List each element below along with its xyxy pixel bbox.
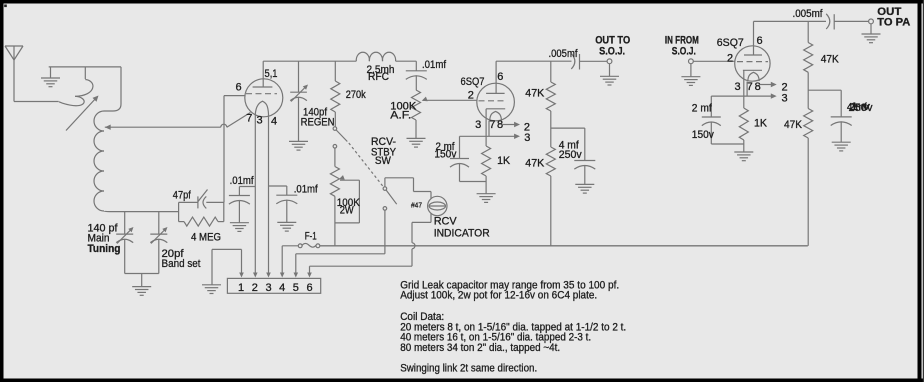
V3 heater dome xyxy=(748,72,759,81)
label 7 pin v3 xyxy=(747,81,753,93)
capacitor C12 4mf filter xyxy=(808,90,852,142)
label S.O.J. in xyxy=(672,45,696,57)
svg-text:3: 3 xyxy=(782,93,788,105)
svg-text:6: 6 xyxy=(757,35,763,47)
ground G12 v3 cathode xyxy=(734,152,753,161)
label 2 mf v3 xyxy=(692,103,713,115)
label STBY xyxy=(371,147,397,159)
svg-text:5,1: 5,1 xyxy=(265,68,278,80)
svg-text:F-1: F-1 xyxy=(305,231,317,243)
label RCV xyxy=(434,216,458,228)
lamp DS1 #47 xyxy=(428,196,447,215)
resistor R6 47K plate load xyxy=(546,61,555,147)
notes text block xyxy=(400,279,626,374)
svg-text:INDICATOR: INDICATOR xyxy=(434,228,490,240)
label TO PA xyxy=(877,17,910,29)
svg-text:6SQ7: 6SQ7 xyxy=(717,37,744,49)
svg-text:3: 3 xyxy=(265,282,271,294)
label 3 arrow v2 xyxy=(524,132,530,144)
variable capacitor C1 140pf Main Tuning xyxy=(116,212,133,274)
label .01mf right xyxy=(294,184,319,196)
ground G2 tuning caps xyxy=(132,274,151,296)
V2 grid dashes xyxy=(479,100,507,102)
svg-text:Adjust 100k, 2w pot for 12-16v: Adjust 100k, 2w pot for 12-16v on 6C4 pl… xyxy=(400,290,597,302)
label 8 pin v2 xyxy=(497,119,503,131)
V3 plate xyxy=(744,21,762,55)
svg-text:A.F.: A.F. xyxy=(390,110,411,122)
svg-text:S.O.J.: S.O.J. xyxy=(672,45,696,57)
capacitor C3 47pf grid leak xyxy=(179,190,224,209)
switch S1b contact bottom xyxy=(383,207,387,211)
label 3 pin V1 xyxy=(257,115,263,127)
wire S1b top to lamp xyxy=(385,178,431,199)
label 3 pin v2b xyxy=(475,119,481,131)
svg-text:RCV: RCV xyxy=(434,216,458,228)
resistor R5 1K xyxy=(482,146,491,182)
wire V1 plate bus xyxy=(263,60,356,62)
svg-text:7: 7 xyxy=(246,113,252,125)
svg-text:.01mf: .01mf xyxy=(230,175,255,187)
wire filament pin3 to terminal 2 xyxy=(253,114,258,278)
svg-text:1K: 1K xyxy=(497,155,511,167)
svg-text:3: 3 xyxy=(735,81,741,93)
label 150v overlap b xyxy=(849,102,873,114)
pentode V2 6SQ7 envelope xyxy=(477,83,515,121)
label RFC xyxy=(368,71,389,83)
wire RFC to coupling cap xyxy=(396,61,417,71)
svg-text:.005mf: .005mf xyxy=(549,48,579,60)
node IN FROM S.O.J. terminal xyxy=(689,59,694,64)
svg-text:1: 1 xyxy=(238,282,244,294)
label 4mf overlap a xyxy=(847,102,868,114)
label 6SQ7 v2 xyxy=(461,76,485,88)
V2 diode arrow to 3 xyxy=(460,121,521,139)
ground G6 af pot xyxy=(407,138,426,147)
ground G13 xyxy=(832,142,851,151)
V3 cathode bar xyxy=(743,70,762,108)
wire terminal 4 to fuse xyxy=(280,246,298,278)
wire coil top entry xyxy=(104,67,121,111)
label terminal 6 xyxy=(306,282,312,294)
fuse F-1 xyxy=(298,243,319,247)
svg-text:8: 8 xyxy=(755,81,761,93)
B+ rail wire xyxy=(320,245,808,247)
V3 diode arrow to 3 xyxy=(711,82,776,99)
label 150v v2 xyxy=(434,149,456,161)
terminal strip box xyxy=(227,278,320,293)
svg-text:Band set: Band set xyxy=(162,258,201,270)
svg-text:150v: 150v xyxy=(434,149,456,161)
resistor R1 4 MEG xyxy=(179,202,224,226)
label 7 pin v2 xyxy=(489,119,495,131)
switch S1a lever xyxy=(336,130,347,142)
svg-text:1K: 1K xyxy=(754,118,768,130)
V3 diode arrow to 2 xyxy=(759,82,777,87)
label 100K 2W a xyxy=(337,197,361,209)
svg-text:2: 2 xyxy=(252,282,258,294)
V3 grid dashes xyxy=(737,61,768,63)
svg-text:Tuning: Tuning xyxy=(88,243,121,255)
wire V2 plate bus xyxy=(496,60,571,62)
svg-text:.01mf: .01mf xyxy=(422,59,447,71)
svg-text:2W: 2W xyxy=(340,205,355,217)
V1 plate xyxy=(253,61,273,87)
label .01mf coupling xyxy=(422,59,447,71)
capacitor C10 .005mf xyxy=(571,54,607,70)
svg-text:3: 3 xyxy=(257,115,263,127)
resistor R2 270k xyxy=(331,61,340,127)
capacitor C9 4mf 250v xyxy=(551,128,596,184)
label 140pf xyxy=(303,107,328,119)
svg-text:150v: 150v xyxy=(692,129,714,141)
coil tap wire to cathode xyxy=(105,113,251,130)
R4 wiper arrow xyxy=(339,175,360,180)
svg-text:6SQ7: 6SQ7 xyxy=(461,76,485,88)
V2 heater dome xyxy=(490,111,502,120)
ground G1 at link top xyxy=(41,67,60,87)
svg-text:.005mf: .005mf xyxy=(793,8,824,20)
switch S1b lever xyxy=(386,190,397,204)
svg-text:Swinging link 2t same directio: Swinging link 2t same direction. xyxy=(400,363,537,375)
capacitor C5 .01mf xyxy=(269,186,298,222)
svg-text:2: 2 xyxy=(727,53,733,65)
svg-text:3: 3 xyxy=(524,132,530,144)
svg-text:RFC: RFC xyxy=(368,71,389,83)
wire ground bus to coil top xyxy=(49,66,121,68)
potentiometer R4 100K 2W xyxy=(330,167,339,197)
label 6SQ7 v3 xyxy=(717,37,744,49)
node OUT TO PA terminal xyxy=(869,19,874,24)
svg-text:6: 6 xyxy=(236,82,242,94)
label 100K af xyxy=(390,101,417,113)
label 2 arrow v3 xyxy=(782,82,788,94)
wire V3 plate bus xyxy=(754,20,827,22)
variable capacitor C2 20pf Band set xyxy=(150,212,167,274)
label 20pf xyxy=(162,248,185,260)
label 1K v3 xyxy=(754,118,768,130)
V1 grid dashes xyxy=(246,93,277,95)
V1 cathode heater xyxy=(255,101,268,114)
label .01mf left xyxy=(230,175,255,187)
label 250v xyxy=(559,149,582,161)
label 4 mf xyxy=(559,140,580,152)
svg-text:2: 2 xyxy=(468,90,474,102)
label A.F. xyxy=(390,110,411,122)
label 6 pin v3 xyxy=(757,35,763,47)
label terminal 4 xyxy=(279,282,285,294)
label 7 pin V1 xyxy=(246,113,252,125)
ground G3 xyxy=(230,223,249,232)
label 4 pin V1 xyxy=(271,116,277,128)
V2 diode arrow to 2 xyxy=(502,122,520,127)
label 8 pin v3 xyxy=(755,81,761,93)
resistor R9 47K plate load xyxy=(804,21,813,108)
label SW xyxy=(375,155,392,167)
label 47K r7 xyxy=(525,158,545,170)
resistor R7 47K dropping xyxy=(546,147,555,246)
label 2 mf v2 xyxy=(436,141,456,153)
label 3 pin v3b xyxy=(735,81,741,93)
label INDICATOR xyxy=(434,228,490,240)
label F-1 xyxy=(305,231,317,243)
svg-text:4 MEG: 4 MEG xyxy=(191,232,221,244)
svg-text:S.O.J.: S.O.J. xyxy=(599,45,625,57)
wire filament pin4 to terminal 3 xyxy=(266,114,271,278)
pentode V3 6SQ7 envelope xyxy=(735,46,770,81)
svg-text:250v: 250v xyxy=(559,149,582,161)
svg-text:#47: #47 xyxy=(411,201,422,210)
V2 cathode bar xyxy=(486,109,505,146)
wire soj to V3 grid xyxy=(693,60,734,62)
label 47K r9 xyxy=(821,54,840,66)
label 47K r10 xyxy=(784,119,803,131)
label 140 pf xyxy=(88,223,119,235)
label 2 pin v3 xyxy=(727,53,733,65)
wire terminal 5 to switch xyxy=(294,254,385,278)
wire antenna to link bottom xyxy=(14,101,59,103)
wire terminal 1 to ground xyxy=(212,249,244,284)
label #47 xyxy=(411,201,422,210)
ground G11 soj in xyxy=(681,64,700,86)
label 6 pin V1 xyxy=(236,82,242,94)
potentiometer R3 100K A.F. xyxy=(412,90,421,138)
switch S1a contact bottom xyxy=(333,145,337,149)
main tuning coil L1 xyxy=(94,111,104,211)
swinging link L2 xyxy=(59,67,93,106)
capacitor C4 .01mf xyxy=(229,187,255,223)
label 150v overlap c xyxy=(850,101,871,113)
ground G9 4mf xyxy=(575,184,594,193)
wire terminal 6 to lamp xyxy=(307,266,412,277)
capacitor C11 2mf 150v xyxy=(702,96,744,144)
label 1K v2 xyxy=(497,155,511,167)
svg-text:SW: SW xyxy=(375,155,392,167)
capacitor C13 .005mf xyxy=(826,14,868,30)
label 150v v3 xyxy=(692,129,714,141)
svg-text:6: 6 xyxy=(306,282,312,294)
svg-text:2 mf: 2 mf xyxy=(692,103,713,115)
label 2 pin v2 xyxy=(468,90,474,102)
switch S1a contact top xyxy=(333,127,337,131)
ground G4 xyxy=(277,222,296,231)
switch linkage dashed xyxy=(349,143,383,187)
svg-text:47K: 47K xyxy=(525,158,545,170)
wire grid to tube V1 xyxy=(224,96,245,203)
label 4 MEG xyxy=(191,232,221,244)
ground G7 terminal 1 xyxy=(202,285,221,294)
label 3 arrow v3 xyxy=(782,93,788,105)
svg-text:47K: 47K xyxy=(821,54,840,66)
label 6 pin v2 xyxy=(497,71,503,83)
wire lamp to terminal 6 xyxy=(412,214,431,267)
variable capacitor C6 140pf REGEN xyxy=(290,61,308,141)
svg-text:4: 4 xyxy=(271,116,277,128)
link coupling arrow xyxy=(66,96,99,131)
svg-text:47K: 47K xyxy=(784,119,803,131)
label 270k xyxy=(346,89,366,101)
triode V1 envelope xyxy=(245,79,283,117)
label OUT TO xyxy=(595,35,630,47)
svg-text:47K: 47K xyxy=(525,88,545,100)
capacitor C8 2mf 150v xyxy=(450,136,486,181)
label Band set xyxy=(162,258,201,270)
svg-text:1 v: 1 v xyxy=(850,101,871,113)
ground G5 regen xyxy=(289,141,308,150)
ground G14 pa out xyxy=(862,24,881,43)
ground G8 v2 cathode xyxy=(477,182,496,203)
switch S1b contact top xyxy=(383,187,387,191)
wire tuning caps bottom xyxy=(125,273,159,275)
label terminal 3 xyxy=(265,282,271,294)
label 5,1 pin xyxy=(265,68,278,80)
label RCV- xyxy=(371,136,396,148)
label 47pf xyxy=(173,190,192,202)
label .005mf s1 xyxy=(549,48,579,60)
wire coil bottom to grid leak xyxy=(104,210,179,213)
wire switch to pot xyxy=(334,148,336,166)
label Tuning xyxy=(88,243,121,255)
label S.O.J. out xyxy=(599,45,625,57)
svg-text:.01mf: .01mf xyxy=(294,184,319,196)
V2 plate xyxy=(486,61,505,93)
svg-text:7: 7 xyxy=(489,119,495,131)
resistor R10 47K dropping xyxy=(804,109,813,246)
ground G10 soj out xyxy=(600,64,619,85)
svg-text:47pf: 47pf xyxy=(173,190,192,202)
svg-text:REGEN: REGEN xyxy=(301,117,335,129)
node OUT TO S.O.J. terminal xyxy=(607,59,612,64)
svg-text:5: 5 xyxy=(293,282,299,294)
label terminal 2 xyxy=(252,282,258,294)
wire S1b bottom to terminal 5 xyxy=(384,210,386,254)
label terminal 5 xyxy=(293,282,299,294)
label 2W xyxy=(340,205,355,217)
label .005mf s2 xyxy=(793,8,824,20)
R4 wiper strap xyxy=(335,180,360,246)
capacitor C7 .01mf coupling xyxy=(406,71,427,90)
svg-text:TO PA: TO PA xyxy=(877,17,910,29)
resistor R8 1K xyxy=(739,108,748,152)
svg-text:270k: 270k xyxy=(346,89,366,101)
inductor RFC 2.5mh xyxy=(356,52,395,61)
svg-text:6: 6 xyxy=(497,71,503,83)
label 47K r6 xyxy=(525,88,545,100)
svg-text:80 meters 34 ton 2" dia., tapp: 80 meters 34 ton 2" dia., tapped ~4t. xyxy=(400,342,560,354)
label Main xyxy=(88,233,110,245)
label 2.5mh xyxy=(367,64,395,76)
svg-text:4: 4 xyxy=(279,282,285,294)
label OUT xyxy=(877,6,901,18)
label IN FROM xyxy=(665,35,699,47)
svg-text:3: 3 xyxy=(475,119,481,131)
label terminal 1 xyxy=(238,282,244,294)
label REGEN xyxy=(301,117,335,129)
R3 wiper arrow xyxy=(422,97,477,102)
label 2 arrow v2 xyxy=(524,121,530,133)
antenna xyxy=(5,46,23,102)
